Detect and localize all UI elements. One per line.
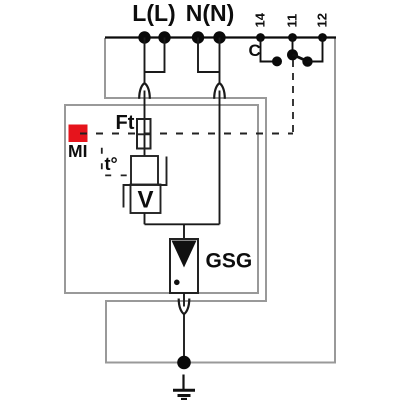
contact terminal dot 14 bbox=[256, 33, 265, 42]
terminal dot N2 bbox=[213, 31, 225, 43]
label 12 bbox=[315, 13, 330, 27]
GSG dot bbox=[174, 280, 180, 286]
ground bar 3 bbox=[181, 398, 187, 400]
ground stem bbox=[182, 375, 184, 391]
plug contact L bbox=[139, 83, 150, 99]
wire: contact 12 bbox=[308, 38, 323, 62]
label N(N) bbox=[186, 0, 235, 26]
wire: N terminals join bbox=[198, 38, 220, 84]
terminal dot L2 bbox=[158, 31, 170, 43]
wire: junction bus bbox=[145, 223, 220, 225]
label GSG bbox=[206, 250, 253, 273]
wire: junction to GSG bbox=[183, 224, 185, 239]
contact terminal dot 11 bbox=[288, 33, 297, 42]
label 14 bbox=[253, 12, 268, 27]
svg-text:t°: t° bbox=[105, 154, 118, 174]
mechanical linkage dashed vertical bbox=[292, 60, 294, 134]
terminal dot L1 bbox=[138, 31, 150, 43]
label L(L) bbox=[132, 0, 175, 26]
outer circuit loop wire bbox=[105, 38, 335, 363]
label C bbox=[249, 41, 261, 60]
label MI bbox=[68, 141, 87, 161]
label Ft bbox=[116, 112, 135, 134]
wire: contact 11 bbox=[292, 38, 294, 54]
contact fixed dot 14 bbox=[272, 56, 282, 66]
label 11 bbox=[285, 14, 300, 28]
svg-text:12: 12 bbox=[315, 13, 330, 27]
gas discharge tube GSG box bbox=[170, 239, 198, 293]
svg-text:14: 14 bbox=[253, 12, 268, 27]
svg-text:L(L): L(L) bbox=[132, 0, 175, 26]
contact pivot dot 11 bbox=[287, 49, 298, 60]
svg-text:Ft: Ft bbox=[116, 112, 135, 134]
contact terminal dot 12 bbox=[318, 33, 327, 42]
wire: top bus L-N-contacts bbox=[105, 36, 336, 38]
thermal link dashed bbox=[102, 148, 130, 176]
terminal dot N1 bbox=[192, 31, 204, 43]
ground bar 2 bbox=[178, 394, 191, 397]
label V bbox=[137, 187, 153, 214]
svg-text:11: 11 bbox=[285, 14, 300, 28]
varistor bracket left bbox=[124, 185, 131, 208]
ground bar 1 bbox=[173, 389, 195, 392]
GSG triangle bbox=[172, 241, 197, 268]
label t° bbox=[105, 154, 118, 174]
thermal fuse Ft bbox=[137, 119, 151, 149]
wire: GSG pin down bbox=[183, 293, 185, 307]
svg-text:MI: MI bbox=[68, 141, 87, 161]
wire: ground riser bbox=[183, 314, 185, 363]
varistor box bbox=[131, 185, 161, 214]
plug contact ground bbox=[179, 299, 190, 315]
plug contact N bbox=[214, 83, 225, 99]
disconnector bracket right bbox=[158, 157, 167, 186]
svg-text:N(N): N(N) bbox=[186, 0, 235, 26]
wire: N branch bbox=[219, 91, 221, 225]
wire: contact 14 bbox=[261, 38, 274, 62]
svg-text:V: V bbox=[137, 187, 153, 214]
svg-text:C: C bbox=[249, 41, 261, 60]
wire: L branch bbox=[144, 91, 146, 157]
MI indicator red square bbox=[69, 125, 88, 143]
disconnector box bbox=[131, 156, 158, 185]
contact lever bbox=[293, 55, 309, 62]
ground junction dot bbox=[177, 356, 191, 370]
svg-text:GSG: GSG bbox=[206, 250, 253, 273]
mechanical linkage dashed horizontal bbox=[80, 133, 293, 135]
wire: L terminals join bbox=[145, 38, 165, 84]
wire: varistor to junction bbox=[144, 213, 146, 224]
contact fixed dot 12 bbox=[302, 56, 312, 66]
module enclosure box bbox=[65, 105, 258, 293]
